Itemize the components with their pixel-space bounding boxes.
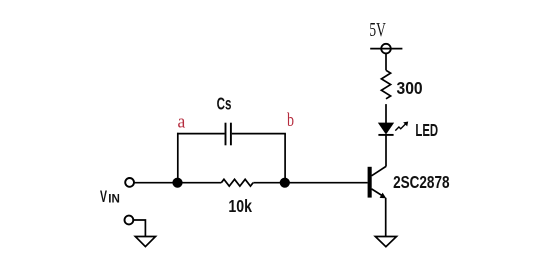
wire resistor to LED <box>385 104 387 123</box>
svg-text:10k: 10k <box>228 196 252 216</box>
LED emission arrow <box>395 122 408 131</box>
transistor Q1 2SC2878 <box>368 166 387 198</box>
capacitor Cs <box>226 123 231 146</box>
wire terminal to ground <box>134 220 146 236</box>
node a junction dot <box>172 178 182 188</box>
ground (input) <box>135 237 155 247</box>
wire node a up <box>177 133 179 183</box>
wire LED to collector <box>385 135 387 167</box>
wire VIN to resistor 10k <box>134 182 221 184</box>
terminal VIN <box>125 178 134 187</box>
resistor 300 <box>381 70 390 98</box>
base bar <box>368 167 372 198</box>
svg-text:5V: 5V <box>369 19 386 41</box>
svg-text:IN: IN <box>108 191 120 205</box>
svg-text:LED: LED <box>415 120 438 140</box>
wire capacitor to top right <box>232 133 286 135</box>
wire 5V terminal to resistor R300 <box>385 53 387 70</box>
resistor 10k <box>221 179 253 186</box>
wire node b up <box>284 134 286 183</box>
collector lead <box>372 166 387 175</box>
wire emitter to ground <box>385 198 387 237</box>
wire top left to capacitor <box>177 133 225 135</box>
LED D1 <box>378 123 393 135</box>
node b junction dot <box>280 178 290 188</box>
node 5V supply terminal <box>370 44 402 54</box>
svg-text:V: V <box>100 187 107 206</box>
svg-text:Cs: Cs <box>217 94 232 114</box>
terminal ground reference <box>124 216 133 225</box>
wire 10k to transistor base <box>253 182 367 184</box>
emitter lead with arrow <box>372 189 385 197</box>
svg-text:b: b <box>287 110 294 131</box>
svg-text:300: 300 <box>397 78 423 98</box>
ground (emitter) <box>375 237 396 247</box>
svg-text:a: a <box>178 111 186 132</box>
svg-text:2SC2878: 2SC2878 <box>393 172 449 192</box>
